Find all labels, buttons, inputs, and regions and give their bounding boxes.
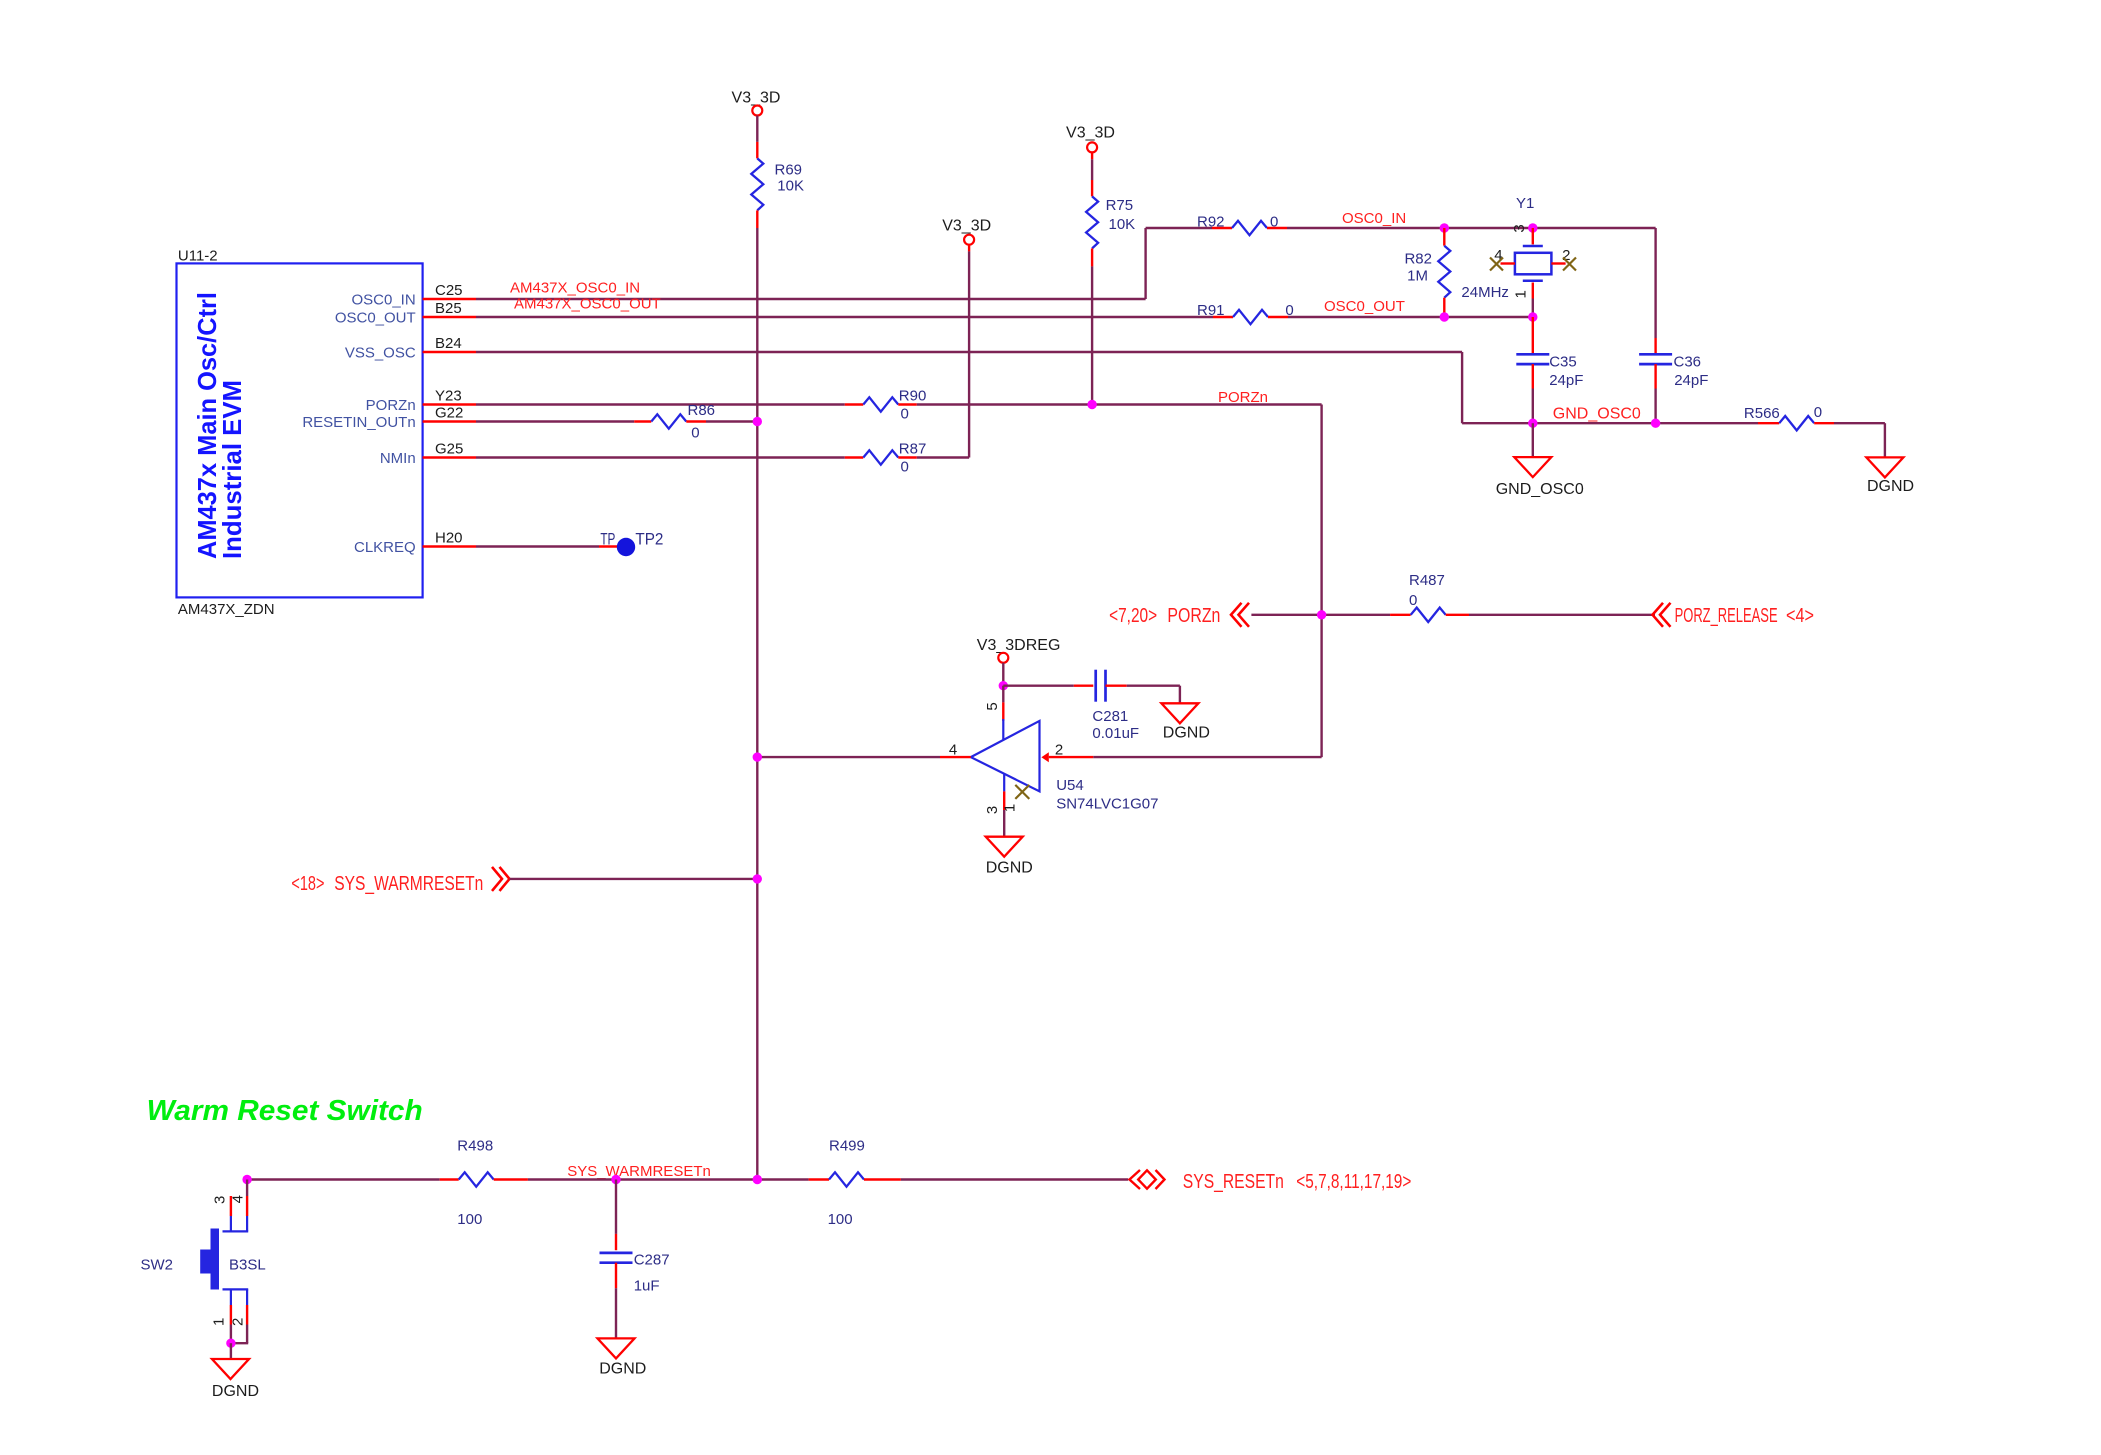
svg-text:0: 0	[901, 459, 909, 476]
svg-text:DGND: DGND	[1163, 725, 1210, 742]
switch SW2 B3SL	[141, 1180, 266, 1344]
svg-text:24pF: 24pF	[1549, 372, 1583, 389]
pin G25 NMIn of U11-2	[380, 441, 476, 468]
resistor R82 1M	[1404, 228, 1450, 317]
capacitor C287 1uF	[600, 1252, 670, 1295]
wire H20 CLKREQ row	[476, 545, 620, 547]
wire R487 to PORZ_RELEASE	[1469, 614, 1655, 616]
wire C25 OSC0_IN row	[476, 228, 1212, 299]
svg-text:GND_OSC0: GND_OSC0	[1553, 406, 1641, 423]
svg-text:1uF: 1uF	[634, 1278, 660, 1295]
wire C281 to DGND	[1127, 686, 1180, 704]
svg-text:R487: R487	[1409, 572, 1445, 589]
wire C36 to GND row	[1654, 389, 1656, 424]
junction V3_3DREG/C281	[999, 681, 1008, 690]
wire V3_3D to R69	[756, 116, 758, 142]
wire junction to C287	[615, 1180, 617, 1251]
wire C35 to GND row	[1532, 389, 1534, 424]
svg-text:0: 0	[1270, 214, 1278, 231]
junction SYS_WARMRESETn/vertical	[753, 874, 762, 883]
svg-text:SYS_RESETn: SYS_RESETn	[1183, 1171, 1284, 1193]
svg-text:3: 3	[984, 806, 1001, 814]
junction vertical/pin4	[753, 752, 762, 761]
resistor R566 0	[1744, 404, 1834, 430]
pin B24 VSS_OSC of U11-2	[345, 335, 476, 362]
junction OSC0_IN/crystal pin3	[1528, 223, 1537, 232]
svg-text:R75: R75	[1106, 197, 1134, 214]
off-page connector <18> SYS_WARMRESETn	[291, 867, 509, 895]
junction C287 tap	[611, 1175, 620, 1184]
svg-text:PORZn: PORZn	[366, 397, 416, 414]
off-page connector SYS_RESETn	[1130, 1170, 1412, 1193]
wire SYS_WARMRESETn row	[510, 878, 758, 880]
pin H20 CLKREQ of U11-2	[354, 530, 476, 557]
crystal Y1 24MHz	[1461, 195, 1570, 317]
svg-text:Warm Reset Switch: Warm Reset Switch	[147, 1095, 423, 1127]
no-connect X crystal pin 2	[1563, 258, 1576, 271]
svg-text:Industrial EVM: Industrial EVM	[217, 380, 247, 559]
svg-text:PORZn: PORZn	[1167, 605, 1220, 627]
svg-text:SYS_WARMRESETn: SYS_WARMRESETn	[567, 1163, 711, 1180]
wire G22 RESETIN_OUTn row	[476, 420, 634, 422]
svg-text:R87: R87	[899, 441, 927, 458]
junction OSC0_IN/R82	[1440, 223, 1449, 232]
svg-text:R69: R69	[775, 162, 803, 179]
svg-text:AM437X_ZDN: AM437X_ZDN	[178, 601, 275, 618]
svg-text:B24: B24	[435, 335, 462, 352]
svg-text:VSS_OSC: VSS_OSC	[345, 345, 416, 362]
svg-text:10K: 10K	[1109, 216, 1136, 233]
wire OSC0_OUT to crystal	[1288, 316, 1533, 318]
svg-text:V3_3D: V3_3D	[1066, 125, 1115, 142]
junction OSC0_OUT/crystal pin1	[1528, 312, 1537, 321]
svg-text:<4>: <4>	[1786, 605, 1814, 627]
svg-text:1M: 1M	[1407, 268, 1428, 285]
wire B24 VSS_OSC row	[476, 352, 1462, 423]
svg-text:G25: G25	[435, 441, 463, 458]
svg-text:C281: C281	[1092, 708, 1128, 725]
wire PORZn vertical x=1321.6	[1320, 405, 1322, 758]
junction OSC0_OUT/R82	[1440, 312, 1449, 321]
resistor R499 100	[809, 1138, 901, 1229]
svg-text:C287: C287	[634, 1252, 670, 1269]
svg-text:1: 1	[210, 1318, 227, 1326]
wire U54 pin 2 to PORZn vertical	[1049, 741, 1322, 758]
svg-text:C36: C36	[1674, 354, 1702, 371]
svg-text:<5,7,8,11,17,19>: <5,7,8,11,17,19>	[1296, 1171, 1411, 1193]
ground symbol DGND (U54)	[986, 837, 1033, 877]
svg-text:U54: U54	[1056, 777, 1084, 794]
wire B25 OSC0_OUT row	[476, 316, 1213, 318]
pin Y23 PORZn of U11-2	[366, 388, 476, 415]
svg-text:SN74LVC1G07: SN74LVC1G07	[1056, 796, 1158, 813]
svg-text:C35: C35	[1549, 354, 1577, 371]
svg-text:V3_3DREG: V3_3DREG	[977, 637, 1061, 654]
svg-text:TP: TP	[600, 530, 615, 549]
svg-text:DGND: DGND	[986, 860, 1033, 877]
junction GND_OSC0/C36	[1651, 419, 1660, 428]
svg-text:0: 0	[691, 425, 699, 442]
svg-text:V3_3D: V3_3D	[942, 218, 991, 235]
wire V3_3D to NMIn row	[968, 245, 970, 458]
svg-text:R92: R92	[1197, 214, 1225, 231]
svg-text:R499: R499	[829, 1138, 865, 1155]
wire crystal pin1 to C35	[1532, 317, 1534, 354]
power symbol V3_3DREG	[977, 637, 1061, 663]
svg-text:24MHz: 24MHz	[1461, 284, 1509, 301]
wire PORZn to R487	[1251, 614, 1390, 616]
wire R87 to V3_3D vertical	[917, 456, 969, 458]
ground symbol DGND (C287)	[598, 1338, 647, 1377]
U54 pin 2 input arrow	[1041, 752, 1048, 762]
test point TP2	[600, 530, 663, 557]
wire Y23 PORZn row	[476, 403, 845, 405]
power symbol V3_3D (above R75)	[1066, 125, 1115, 153]
no-connect X crystal pin 4	[1490, 258, 1503, 271]
buffer U54 SN74LVC1G07	[971, 721, 1159, 813]
svg-text:C25: C25	[435, 282, 463, 299]
svg-text:V3_3D: V3_3D	[732, 90, 781, 107]
wire GND_OSC0 row	[1462, 422, 1758, 424]
svg-text:PORZn: PORZn	[1218, 389, 1268, 406]
wire x757 vertical to U54 pin 4	[757, 741, 971, 758]
svg-text:R90: R90	[899, 388, 927, 405]
resistor R90 0	[845, 388, 927, 423]
ground symbol GND_OSC0	[1496, 457, 1584, 498]
junction SW2 pin 4	[242, 1175, 251, 1184]
svg-text:DGND: DGND	[599, 1361, 646, 1378]
svg-text:10K: 10K	[777, 178, 804, 195]
svg-text:R566: R566	[1744, 405, 1780, 422]
wire junction to C281	[1003, 685, 1093, 687]
svg-text:DGND: DGND	[1867, 478, 1914, 495]
svg-text:3: 3	[1511, 224, 1528, 232]
junction PORZn/R75	[1087, 400, 1096, 409]
wire V3_3DREG down	[1002, 663, 1004, 686]
svg-text:5: 5	[984, 702, 1001, 710]
resistor R487 0	[1390, 572, 1469, 622]
svg-text:1: 1	[1513, 290, 1530, 298]
svg-text:NMIn: NMIn	[380, 450, 416, 467]
off-page connector PORZ_RELEASE <4>	[1653, 603, 1815, 627]
pin C25 OSC0_IN of U11-2	[351, 282, 476, 309]
wire PORZn row to corner	[917, 403, 1322, 405]
resistor R92 0	[1197, 214, 1287, 236]
wire R498 to junctions	[528, 1178, 809, 1180]
svg-text:<7,20>: <7,20>	[1109, 605, 1157, 627]
pin G22 RESETIN_OUTn of U11-2	[302, 405, 476, 432]
ground symbol DGND (SW2)	[212, 1359, 259, 1400]
svg-text:RESETIN_OUTn: RESETIN_OUTn	[302, 414, 415, 431]
U54 pin 3 to DGND	[984, 774, 1004, 837]
svg-text:TP2: TP2	[635, 530, 663, 549]
svg-text:AM437X_OSC0_IN: AM437X_OSC0_IN	[510, 280, 640, 297]
IC block U11-2 AM437x Main Osc/Ctrl	[177, 248, 423, 618]
ground symbol DGND (right)	[1866, 457, 1914, 495]
wire SW2 to R498	[247, 1178, 440, 1180]
svg-text:R91: R91	[1197, 302, 1225, 319]
svg-text:2: 2	[229, 1318, 246, 1326]
svg-text:0: 0	[1409, 592, 1417, 609]
capacitor C36 24pF	[1639, 354, 1708, 390]
resistor R69 10K	[751, 142, 804, 228]
svg-text:GND_OSC0: GND_OSC0	[1496, 481, 1584, 498]
svg-text:R82: R82	[1404, 251, 1432, 268]
svg-text:CLKREQ: CLKREQ	[354, 539, 416, 556]
svg-text:2: 2	[1055, 741, 1063, 758]
svg-text:Y23: Y23	[435, 388, 462, 405]
wire OSC0_IN to crystal	[1287, 227, 1656, 229]
wire R75 to PORZn row	[1091, 266, 1093, 404]
resistor R91 0	[1197, 302, 1294, 324]
svg-text:<18>: <18>	[291, 873, 324, 895]
svg-text:Y1: Y1	[1516, 195, 1534, 212]
svg-text:B25: B25	[435, 300, 462, 317]
wire vertical net SYS_WARMRESETn x=757	[756, 228, 758, 1180]
wire V3_3D to R75	[1091, 152, 1093, 180]
svg-text:24pF: 24pF	[1674, 372, 1708, 389]
svg-text:U11-2: U11-2	[178, 248, 218, 265]
svg-text:B3SL: B3SL	[229, 1257, 266, 1274]
wire C35 junction to GND_OSC0 symbol	[1532, 423, 1534, 457]
resistor R498 100	[440, 1138, 528, 1229]
wire C287 to DGND	[615, 1288, 617, 1338]
wire R86 to vertical	[706, 420, 757, 422]
pin B25 OSC0_OUT of U11-2	[335, 300, 476, 327]
capacitor C35 24pF	[1516, 354, 1583, 390]
wire R566 to DGND	[1834, 423, 1885, 457]
svg-text:SW2: SW2	[141, 1257, 174, 1274]
svg-text:0: 0	[901, 406, 909, 423]
wire OSC0_IN right corner down to C36	[1654, 228, 1656, 354]
svg-text:AM437X_OSC0_OUT: AM437X_OSC0_OUT	[514, 296, 661, 313]
wire SW2 to DGND	[230, 1343, 232, 1359]
junction GND_OSC0/C35	[1528, 419, 1537, 428]
svg-text:PORZ_RELEASE: PORZ_RELEASE	[1675, 605, 1778, 627]
capacitor C281 0.01uF	[1092, 670, 1139, 742]
power symbol V3_3D (above R87 net)	[942, 218, 991, 245]
svg-text:R86: R86	[688, 402, 716, 419]
resistor R87 0	[845, 441, 927, 476]
resistor R75 10K	[1086, 180, 1135, 266]
power symbol V3_3D (above R69)	[732, 90, 781, 116]
svg-text:OSC0_OUT: OSC0_OUT	[335, 310, 416, 327]
svg-text:4: 4	[229, 1195, 246, 1203]
wire V3_3DREG junction to U54 pin 5	[984, 686, 1003, 740]
svg-text:R498: R498	[457, 1138, 493, 1155]
off-page connector <7,20> PORZn	[1109, 603, 1249, 627]
svg-text:4: 4	[949, 741, 957, 758]
svg-text:0: 0	[1814, 404, 1822, 421]
junction bottom/vertical x757	[753, 1175, 762, 1184]
junction PORZn row/vertical	[1317, 610, 1326, 619]
svg-text:OSC0_IN: OSC0_IN	[351, 292, 415, 309]
junction SW2 pins 1/2	[226, 1339, 235, 1348]
svg-text:100: 100	[457, 1211, 482, 1228]
U54 pin 1 no-connect	[1002, 785, 1030, 812]
svg-text:3: 3	[212, 1196, 229, 1204]
svg-text:H20: H20	[435, 530, 463, 547]
svg-text:OSC0_IN: OSC0_IN	[1342, 210, 1406, 227]
resistor R86 0	[634, 402, 715, 442]
svg-text:OSC0_OUT: OSC0_OUT	[1324, 298, 1405, 315]
svg-text:DGND: DGND	[212, 1383, 259, 1400]
svg-text:1: 1	[1002, 804, 1019, 812]
wire R499 to SYS_RESETn	[901, 1178, 1128, 1180]
wire G25 NMIn row	[476, 456, 845, 458]
svg-text:100: 100	[828, 1211, 853, 1228]
junction R86/vertical	[753, 417, 762, 426]
svg-text:SYS_WARMRESETn: SYS_WARMRESETn	[334, 873, 483, 895]
svg-text:G22: G22	[435, 405, 463, 422]
svg-text:0.01uF: 0.01uF	[1092, 725, 1139, 742]
ground symbol DGND (C281)	[1161, 703, 1210, 741]
